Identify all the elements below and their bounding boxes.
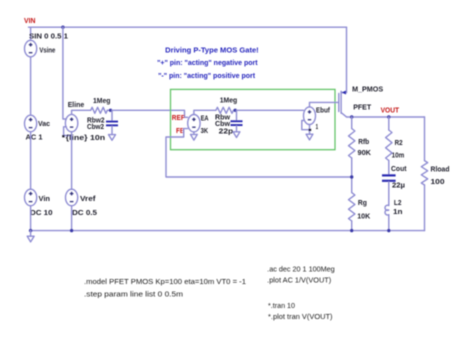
wire Vin to ground rail — [30, 206, 32, 231]
svg-text:.model PFET PMOS Kp=100 eta=10: .model PFET PMOS Kp=100 eta=10m VT0 = -1 — [84, 279, 246, 286]
svg-text:22p: 22p — [219, 127, 234, 136]
wire Eline output to Rbw2 — [72, 110, 91, 114]
ground symbol under EA — [191, 134, 198, 140]
svg-text:1Meg: 1Meg — [220, 96, 238, 105]
svg-text:Cout: Cout — [391, 164, 407, 173]
svg-text:R2: R2 — [395, 138, 403, 147]
wire R2 to Cout — [388, 161, 390, 175]
wire Cbw top stem — [236, 110, 238, 120]
svg-text:.step param line list 0 0.5m: .step param line list 0 0.5m — [84, 292, 183, 299]
svg-text:*.plot tran V(VOUT): *.plot tran V(VOUT) — [268, 314, 333, 321]
inductor L2 — [385, 205, 389, 215]
svg-text:100: 100 — [431, 177, 445, 186]
wire Vsine to Vac — [30, 57, 32, 116]
error-amplifier block outline (green box) — [171, 89, 336, 149]
svg-text:REF: REF — [172, 113, 185, 122]
wire VOUT to Rload — [424, 117, 426, 161]
svg-text:VIN: VIN — [24, 16, 36, 25]
svg-text:Vin: Vin — [39, 194, 51, 203]
junction bottom rail at Rg branch — [350, 229, 353, 232]
ground symbol under Cbw — [233, 132, 240, 138]
svg-text:Cbw2: Cbw2 — [87, 122, 104, 131]
junction bottom rail at Vsine branch — [29, 229, 32, 232]
capacitor Cbw2 — [106, 121, 118, 127]
resistor Rfb — [349, 129, 355, 159]
svg-text:L2: L2 — [394, 198, 402, 207]
voltage source Vsine — [25, 40, 37, 57]
svg-text:SIN 0 0.5 1: SIN 0 0.5 1 — [29, 32, 68, 41]
resistor Rbw2 — [91, 107, 108, 113]
svg-text:PFET: PFET — [353, 103, 371, 112]
svg-text:22µ: 22µ — [392, 181, 405, 190]
svg-text:M_PMOS: M_PMOS — [352, 84, 383, 93]
wire Ebuf output to M_PMOS gate — [310, 102, 339, 107]
svg-text:10m: 10m — [392, 150, 405, 159]
capacitor Cout — [382, 174, 396, 182]
svg-text:Vac: Vac — [38, 119, 50, 128]
svg-text:1Meg: 1Meg — [93, 96, 111, 105]
transistor M_PMOS symbol — [339, 91, 347, 117]
voltage source Vref — [66, 189, 78, 206]
voltage source Vin — [25, 189, 37, 206]
svg-text:AC 1: AC 1 — [26, 133, 43, 142]
svg-text:"-" pin: "acting" positive por: "-" pin: "acting" positive port — [158, 71, 255, 80]
wire Ebuf negative input loop — [302, 121, 310, 130]
svg-text:Ebuf: Ebuf — [316, 106, 330, 115]
resistor R2 — [386, 130, 392, 161]
wire VOUT to Rfb — [351, 117, 353, 129]
svg-text:10K: 10K — [357, 212, 371, 221]
wire Cbw2 top stem — [111, 110, 113, 120]
wire Eline negative input loop — [64, 127, 72, 136]
wire Cbw2 to ground — [111, 126, 113, 134]
wire L2 to ground rail — [388, 215, 390, 231]
wire top rail VIN net — [29, 26, 347, 28]
wire bottom ground rail — [31, 230, 425, 232]
svg-text:3K: 3K — [201, 126, 209, 135]
svg-text:VOUT: VOUT — [381, 106, 400, 115]
wire Rbw to Ebuf input — [234, 109, 304, 111]
voltage source Vac — [25, 115, 37, 132]
svg-text:.ac dec 20 1 100Meg: .ac dec 20 1 100Meg — [267, 266, 335, 273]
svg-text:DC 10: DC 10 — [30, 208, 53, 217]
junction VOUT at R2 branch — [387, 115, 390, 118]
wire VOUT rail — [347, 116, 425, 118]
wire VOUT to R2 — [388, 117, 390, 130]
svg-text:DC 0.5: DC 0.5 — [72, 208, 97, 217]
dependent source EA (error amp) — [188, 115, 200, 132]
svg-text:Rfb: Rfb — [358, 137, 369, 146]
ground symbol under Cbw2 — [109, 135, 116, 141]
svg-text:90K: 90K — [358, 148, 372, 157]
junction top rail to Eline sense — [61, 26, 64, 29]
resistor Rbw — [216, 107, 234, 113]
svg-text:.plot AC 1/V(VOUT): .plot AC 1/V(VOUT) — [267, 278, 331, 285]
wire Rg to ground rail — [351, 221, 353, 231]
svg-text:1: 1 — [316, 122, 319, 131]
wire Rbw2 to REF node — [107, 110, 187, 117]
pin dot Eline in- — [62, 135, 64, 137]
dependent source Ebuf (buffer) — [304, 107, 316, 125]
svg-text:*.tran 10: *.tran 10 — [268, 303, 295, 310]
capacitor Cbw — [231, 120, 243, 126]
junction node REF at Cbw2 — [109, 109, 112, 112]
junction bottom rail at Vref branch — [70, 229, 73, 232]
svg-text:EA: EA — [201, 113, 210, 122]
junction bottom rail at L2 branch — [387, 229, 390, 232]
wire Cbw to ground — [236, 126, 238, 132]
wire Cout to L2 — [388, 182, 390, 206]
wire Vac to Vin — [30, 132, 32, 190]
wire FB input — [166, 129, 352, 177]
resistor Rload — [421, 161, 427, 185]
svg-text:Rg: Rg — [358, 198, 367, 207]
svg-text:Driving P-Type MOS Gate!: Driving P-Type MOS Gate! — [165, 45, 259, 54]
svg-text:Rload: Rload — [431, 165, 450, 174]
svg-text:Eline: Eline — [68, 100, 85, 109]
svg-text:Vsine: Vsine — [39, 46, 55, 55]
wire Ebuf ground stem — [309, 132, 311, 134]
wire Rfb to Rg (FB node) — [351, 158, 353, 193]
svg-text:Vref: Vref — [80, 194, 96, 203]
wire VIN sense drop to Eline input — [63, 27, 66, 119]
junction node at Cbw — [234, 109, 237, 112]
dependent source Eline — [65, 114, 77, 131]
resistor Rg — [349, 193, 355, 221]
junction VOUT at Rfb branch — [350, 115, 353, 118]
wire Ebuf output minus stem — [309, 125, 311, 132]
wire Vsine top stem — [30, 27, 32, 40]
wire EA output to Rbw — [194, 110, 216, 114]
svg-text:"+" pin: "acting" negative por: "+" pin: "acting" negative port — [157, 58, 258, 67]
wire EA ground stem — [193, 132, 195, 135]
ground symbol bottom left — [27, 236, 34, 242]
pin dot Ebuf out- — [309, 129, 312, 131]
wire Eline to Vref — [71, 132, 73, 190]
wire Vref to ground rail — [71, 206, 73, 231]
wire VIN rail drop to M_PMOS source — [346, 27, 348, 92]
svg-text:1n: 1n — [393, 207, 403, 216]
junction FB node — [350, 175, 353, 178]
wire Rload to ground rail — [424, 185, 426, 231]
wire ground stem — [30, 231, 32, 237]
ground symbol under Ebuf — [306, 134, 313, 140]
